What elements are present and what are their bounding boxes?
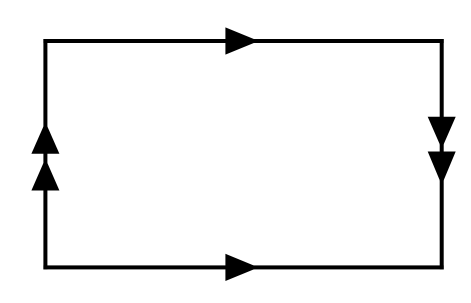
arrowhead: right edge lower, pointing down [428, 152, 456, 186]
wire: left edge [43, 39, 47, 269]
wire: right edge [440, 39, 444, 269]
arrowhead: top edge, pointing right [225, 27, 258, 54]
arrowhead: bottom edge, pointing right [225, 254, 258, 281]
arrowhead: right edge upper, pointing down [428, 117, 456, 149]
wire: top edge [43, 39, 443, 43]
wire: bottom edge [43, 265, 443, 269]
arrowhead: left edge lower, pointing up [31, 159, 59, 191]
arrowhead: left edge upper, pointing up [31, 122, 59, 154]
